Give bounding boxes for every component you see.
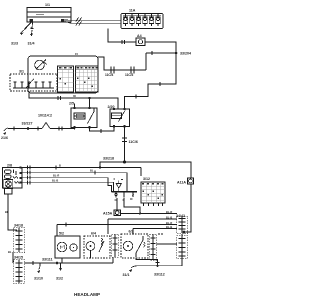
wire ground bus 33/111: [13, 261, 113, 263]
svg-text:31/4: 31/4: [28, 42, 35, 46]
wire 34/18 to 34/15: [12, 252, 14, 261]
wire w_b: [56, 225, 58, 237]
svg-text:21/6: 21/6: [1, 136, 8, 140]
svg-text:BL: BL: [5, 210, 9, 214]
svg-text:BL-B: BL-B: [166, 215, 172, 219]
wire 6/2 to node 33/112: [136, 258, 158, 266]
relay A15A: [114, 210, 121, 216]
svg-text:33/218: 33/218: [103, 157, 114, 161]
wire bus to relays: [50, 128, 75, 130]
wire right bus down: [125, 53, 177, 108]
svg-text:33/112: 33/112: [154, 273, 165, 277]
wire ground diagonal to 31/4: [32, 23, 33, 35]
title: [74, 292, 100, 297]
svg-text:33/111: 33/111: [42, 258, 53, 262]
svg-text:A15A: A15A: [103, 212, 113, 216]
wire headlamp down to connector 34/18: [8, 194, 17, 230]
svg-text:2/20: 2/20: [108, 105, 115, 109]
switch table: [58, 66, 99, 92]
motor unit 6/2: [121, 234, 148, 258]
svg-text:11A: 11A: [129, 9, 136, 13]
ground 31/1: [131, 266, 158, 268]
svg-text:A11A: A11A: [177, 181, 186, 185]
svg-text:2/8: 2/8: [7, 164, 12, 168]
svg-text:15: 15: [75, 52, 78, 56]
node stub relay 2/5: [88, 97, 90, 99]
node 33/218: [123, 161, 126, 164]
wire w2: [22, 173, 127, 192]
connector 10/114:2 peak: [42, 123, 50, 129]
tiny wire labels: [5, 52, 172, 254]
ground 31/2: [60, 263, 62, 268]
relay A4: [136, 38, 145, 46]
wire ground diagonal to 31/3: [21, 23, 32, 34]
connector 11C/4: [110, 67, 112, 74]
fusebox 11A: [121, 14, 163, 29]
svg-text:1/1: 1/1: [45, 3, 50, 7]
svg-text:34/15: 34/15: [14, 256, 23, 260]
connector col 6/2: [150, 234, 157, 260]
x marks: [158, 233, 163, 235]
node 33/112: [156, 265, 158, 267]
motor unit 6/4: [84, 236, 110, 258]
wire w_d 6/2 top: [133, 228, 177, 230]
svg-text:31/3: 31/3: [11, 42, 18, 46]
svg-text:31/2: 31/2: [56, 277, 63, 281]
wire switch out right: [98, 57, 146, 70]
svg-text:BL-B: BL-B: [166, 225, 172, 229]
ground 31/10: [39, 263, 41, 270]
connector 11C/3: [130, 67, 132, 74]
svg-text:33/227: 33/227: [22, 122, 33, 126]
node 33/111: [56, 262, 59, 265]
svg-text:BL: BL: [90, 169, 94, 173]
wire w_a: [121, 213, 178, 215]
wire 1/1 to fusebox lower: [65, 22, 121, 24]
wire lower bus 21/6: [4, 128, 8, 131]
svg-text:10/114:2: 10/114:2: [38, 114, 52, 118]
wire node right to A11A: [125, 162, 192, 178]
wire 11C step to node 33/204: [146, 52, 176, 54]
svg-text:33/204: 33/204: [180, 52, 191, 56]
svg-text:BL: BL: [8, 250, 12, 254]
svg-text:B: B: [59, 164, 61, 168]
node 33/204: [175, 52, 178, 55]
wire w3: [22, 178, 112, 192]
wire A4 to right bus: [145, 42, 176, 53]
wire from x108: [108, 218, 177, 220]
headlamp unit 2/8: [3, 168, 23, 189]
svg-text:34/18: 34/18: [14, 224, 23, 228]
rotary knob: [35, 60, 45, 70]
wire w1: [22, 167, 141, 169]
svg-text:3/1: 3/1: [19, 70, 24, 74]
connector 34/42 lower: [177, 236, 188, 259]
svg-text:2/5: 2/5: [69, 102, 74, 106]
svg-text:34/42: 34/42: [176, 214, 185, 218]
wire diode to A15A: [116, 198, 118, 210]
svg-text:11C/4: 11C/4: [105, 73, 114, 77]
svg-text:BL-R: BL-R: [166, 210, 172, 214]
wire lower conn to 6/2: [157, 234, 183, 244]
wire node left drop: [100, 162, 125, 168]
wire fusebox down to A4 line: [108, 29, 136, 43]
svg-text:31/1: 31/1: [123, 273, 130, 277]
svg-text:6/2: 6/2: [129, 230, 134, 234]
wire 11C up-step: [145, 53, 147, 70]
connector col 6/4: [112, 234, 119, 257]
motor unit 5/2: [55, 236, 80, 258]
wire w4: [22, 182, 114, 192]
diode unit: [116, 184, 121, 189]
svg-text:6/4: 6/4: [91, 232, 96, 236]
svg-text:31/10: 31/10: [34, 277, 43, 281]
svg-text:5/2: 5/2: [59, 232, 64, 236]
svg-text:HEADLAMP: HEADLAMP: [74, 292, 100, 297]
table 3/12: [141, 182, 165, 203]
svg-text:BL-B: BL-B: [52, 178, 58, 182]
relay 2/5: [71, 108, 97, 128]
connector 34/18: [14, 228, 25, 253]
connector 34/15: [14, 260, 25, 284]
svg-text:30: 30: [73, 94, 76, 98]
wire relay 2/20 out down 11C/6: [124, 127, 126, 163]
wire connector 34/42 down to node 33/112: [158, 258, 183, 266]
lightswitch housing 3/1: [28, 56, 98, 93]
wire switch bottom to relay feed: [29, 91, 118, 109]
switch contact box 3/1: [10, 74, 57, 91]
svg-text:3/12: 3/12: [143, 177, 150, 181]
node 33/227: [27, 127, 30, 130]
svg-text:BL-R: BL-R: [53, 174, 59, 178]
svg-text:A4: A4: [137, 34, 142, 38]
wire diode mid down: [124, 198, 140, 214]
connector 34/42 upper: [177, 216, 188, 234]
svg-text:BL-R: BL-R: [166, 221, 172, 225]
svg-text:11C/3: 11C/3: [125, 73, 134, 77]
battery/feed box 1/1: [27, 8, 71, 23]
svg-text:11C/6: 11C/6: [129, 140, 138, 144]
wire A11A down: [184, 184, 191, 232]
wire 1/1 to fusebox upper: [65, 19, 121, 21]
relay 2/20: [110, 109, 130, 127]
relay A11A: [188, 178, 194, 184]
